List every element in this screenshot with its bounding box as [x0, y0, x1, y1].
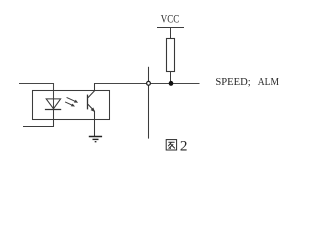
light arrow 2	[65, 102, 75, 107]
svg-text:ALM: ALM	[258, 77, 280, 88]
optocoupler body U (box)	[33, 91, 110, 120]
wire connector vertical stub	[148, 67, 150, 139]
svg-text:SPEED;: SPEED;	[215, 77, 250, 88]
phototransistor collector lead	[88, 84, 95, 98]
wire input anode (top-left)	[19, 84, 54, 110]
wire VCC bar to resistor	[170, 28, 172, 40]
light arrow 1	[67, 97, 79, 102]
wire output horizontal (collector to SPEED;ALM)	[94, 83, 200, 85]
resistor R (pull-up)	[167, 39, 175, 72]
svg-text:VCC: VCC	[161, 13, 180, 26]
figure caption 图 (drawn glyph)	[166, 140, 176, 150]
emitter arrowhead	[91, 108, 96, 113]
LED cathode bar	[45, 109, 61, 111]
terminal open circle	[147, 81, 151, 85]
junction dot (resistor/output node)	[169, 81, 174, 86]
LED anode triangle	[46, 99, 60, 109]
svg-text:2: 2	[180, 138, 188, 155]
VCC rail bar	[157, 27, 184, 29]
phototransistor emitter lead with arrow	[88, 104, 95, 136]
phototransistor Q base bar	[87, 95, 89, 110]
wire cathode to input return (bottom-left)	[23, 110, 54, 127]
ground bar 1	[89, 136, 102, 138]
ground bar 3	[95, 141, 97, 143]
wire resistor to node	[170, 72, 172, 84]
ground bar 2	[93, 138, 99, 140]
